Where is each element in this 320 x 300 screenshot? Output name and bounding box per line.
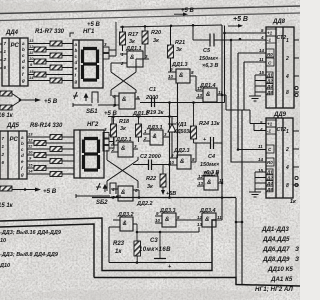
svg-text:R18: R18 — [119, 119, 130, 125]
svg-text:ДД6,ДД7: ДД6,ДД7 — [262, 246, 290, 253]
gate DD2.2 — [118, 186, 133, 201]
svg-text:b: b — [21, 141, 24, 146]
svg-text:SБ2: SБ2 — [96, 200, 108, 206]
wire C5 row to DD8 pin4 — [193, 39, 266, 41]
resistor R11 — [34, 153, 46, 158]
svg-text:Д1: Д1 — [266, 170, 273, 175]
resistor R10 — [50, 147, 62, 152]
svg-text:g: g — [20, 172, 24, 177]
svg-text:ДД1.3: ДД1.3 — [171, 62, 188, 68]
svg-text:10мк×16В: 10мк×16В — [139, 247, 171, 253]
svg-text:&: & — [165, 217, 169, 223]
display HG1 box — [73, 40, 103, 88]
resistor R14 — [50, 172, 62, 177]
pin boxes DD9 left — [266, 120, 276, 192]
svg-text:15: 15 — [259, 70, 265, 75]
pin numbers DD9 right — [285, 129, 289, 189]
display HG1 digit 8 — [83, 49, 98, 81]
resistor R6 — [34, 72, 46, 77]
svg-text:d: d — [21, 153, 24, 158]
resistor R5 — [50, 65, 62, 70]
pin numbers DD8 right — [285, 38, 289, 96]
wire top bus line 2 — [0, 13, 300, 21]
resistor R16 — [0, 91, 12, 96]
pins DD2.2 — [111, 187, 138, 200]
wire frame loop outer — [0, 218, 216, 271]
resistor R8 — [50, 135, 62, 140]
wires DD5 to R to HG2 — [27, 137, 74, 174]
pins DD2.1 — [111, 145, 138, 152]
svg-text:&: & — [179, 73, 183, 79]
capacitor C1 — [152, 98, 155, 108]
gate DD1.3 — [176, 69, 190, 83]
gate DD3.1 — [150, 130, 163, 145]
resistor R17 — [120, 32, 126, 45]
pins DD3.3 — [155, 216, 202, 223]
gate DD2.3 — [177, 155, 191, 169]
svg-text:b: b — [22, 47, 25, 52]
gate DD3.4 — [202, 213, 216, 227]
wire +5V rail — [120, 25, 222, 27]
resistor R15 — [0, 105, 12, 110]
svg-text:С2 2000: С2 2000 — [140, 154, 161, 160]
svg-text:15: 15 — [28, 163, 33, 168]
svg-text:ДД1-ДД3: ДД1-ДД3 — [261, 226, 289, 233]
ground DD8 — [249, 96, 261, 101]
svg-text:10: 10 — [168, 74, 174, 79]
wire R24 leads — [193, 102, 195, 143]
svg-text:2: 2 — [1, 152, 5, 157]
pins DD1.2 — [112, 94, 140, 108]
svg-text:Д8: Д8 — [266, 90, 273, 95]
wire v x224 to h1 — [224, 33, 226, 85]
wire DD3.2 input to bottom rail — [109, 227, 212, 263]
svg-text:ДД3.2: ДД3.2 — [117, 212, 134, 218]
node +5V arrow mid-left — [20, 99, 38, 101]
svg-text:-1: -1 — [267, 129, 271, 134]
wire DD8 R0 C from channel — [238, 53, 266, 62]
pins DD1.3 — [168, 72, 196, 79]
resistor R1 — [50, 41, 62, 46]
wire latch cross SB2 — [107, 150, 138, 191]
wire v x238 to DD9 C — [238, 53, 266, 150]
svg-text:R0: R0 — [267, 52, 273, 57]
resistor R22 — [160, 174, 166, 187]
svg-text:14: 14 — [259, 48, 265, 53]
svg-text:12: 12 — [29, 44, 34, 49]
wire top bus line 1 — [0, 6, 300, 14]
svg-text:12: 12 — [197, 86, 203, 91]
pin boxes HG1 right — [103, 22, 116, 59]
wire R22 arrow +5V — [162, 165, 164, 193]
svg-text:d: d — [75, 60, 78, 65]
wire DD1.4 to DD9 inputs — [222, 95, 266, 124]
svg-text:ДД5: ДД5 — [6, 123, 20, 129]
IC DD9 counter — [266, 118, 293, 198]
svg-text:РС: РС — [10, 137, 19, 143]
svg-text:ДД8,ДД9: ДД8,ДД9 — [262, 256, 290, 263]
svg-text:11: 11 — [258, 144, 263, 149]
svg-text:2: 2 — [120, 61, 124, 66]
pins DD1.1 — [120, 52, 148, 66]
resistor R20 — [142, 31, 148, 44]
svg-text:15: 15 — [29, 69, 34, 74]
svg-text:×6,3 В: ×6,3 В — [202, 63, 218, 69]
svg-text:+5 В: +5 В — [233, 16, 248, 23]
diode VD1 — [168, 117, 177, 159]
ground DD9 — [249, 192, 261, 197]
svg-text:Д2: Д2 — [266, 78, 273, 83]
gate DD2.4 — [204, 176, 218, 190]
wire R18 leads — [113, 116, 115, 145]
wire frame loop inner — [0, 224, 94, 278]
svg-text:150мк×: 150мк× — [199, 56, 219, 62]
wire DD8 outputs — [294, 40, 299, 92]
svg-text:14: 14 — [29, 75, 34, 80]
svg-text:4: 4 — [285, 165, 289, 171]
svg-text:R20: R20 — [151, 30, 161, 36]
svg-text:2: 2 — [285, 56, 289, 62]
resistor R12 — [50, 159, 62, 164]
svg-text:g: g — [21, 78, 25, 83]
svg-text:R1-R7 330: R1-R7 330 — [35, 29, 65, 35]
svg-text:4: 4 — [260, 35, 264, 40]
pins DD3.4 — [216, 219, 222, 221]
capacitor C4 — [211, 137, 214, 149]
svg-text:ДД2.2: ДД2.2 — [136, 201, 153, 207]
resistor R9 — [34, 141, 46, 146]
wire v x244 — [243, 62, 245, 110]
svg-text:R23: R23 — [113, 241, 125, 247]
svg-text:1к: 1к — [115, 249, 122, 255]
wire long bottom line — [94, 278, 300, 287]
wire verticals mid channel — [170, 25, 267, 220]
svg-text:SБ1: SБ1 — [86, 109, 98, 115]
svg-text:НГ1: НГ1 — [83, 29, 95, 35]
wire v x236 lower — [235, 198, 237, 277]
svg-text:12: 12 — [197, 215, 203, 220]
svg-text:Д4: Д4 — [266, 84, 273, 89]
svg-text:&: & — [205, 217, 209, 223]
svg-text:&: & — [121, 190, 125, 196]
node DD8 output connectors — [295, 86, 298, 96]
svg-text:2: 2 — [3, 57, 7, 62]
svg-text:4: 4 — [111, 187, 115, 192]
pin letters DD4 right — [21, 41, 25, 83]
svg-text:8: 8 — [286, 183, 289, 189]
pin numbers DD9 — [258, 120, 264, 173]
scan grain (under ink) — [0, 0, 1, 1]
resistor R18 — [111, 124, 117, 137]
svg-text:ДД3.3: ДД3.3 — [159, 208, 176, 214]
display HG2 box — [74, 130, 104, 178]
svg-text:СТ2: СТ2 — [277, 127, 287, 133]
svg-text:-1: -1 — [267, 38, 271, 43]
svg-text:10: 10 — [29, 56, 34, 61]
svg-text:R21: R21 — [175, 40, 185, 46]
svg-text:13: 13 — [28, 132, 33, 137]
display HG2 digit 8 — [84, 139, 99, 171]
svg-text:РС: РС — [11, 43, 20, 49]
wire DD1.3 out vertical — [195, 76, 197, 91]
svg-text:150мк×: 150мк× — [200, 162, 220, 168]
wire latch cross SB1 — [111, 59, 149, 96]
svg-text:+1: +1 — [267, 122, 273, 127]
svg-text:4: 4 — [112, 94, 116, 99]
svg-text:СТ2: СТ2 — [277, 35, 287, 41]
capacitor C2 — [149, 160, 152, 171]
pin numbers DD5 left — [1, 136, 5, 165]
svg-text:-ДД3; Вы8.8 ДД4-ДД9: -ДД3; Вы8.8 ДД4-ДД9 — [0, 252, 59, 258]
svg-text:R0: R0 — [267, 160, 273, 165]
capacitor C5 — [210, 34, 214, 47]
svg-text:&: & — [130, 55, 134, 61]
svg-text:Д4: Д4 — [266, 181, 273, 186]
wire DD4 input stubs — [0, 44, 2, 68]
svg-text:З: З — [295, 246, 299, 253]
wire R23 C3 top rail — [137, 227, 199, 232]
svg-text:Д2: Д2 — [266, 175, 273, 180]
svg-text:+5 В: +5 В — [87, 22, 101, 28]
node F mark near HG1 — [70, 33, 74, 37]
svg-text:12: 12 — [28, 138, 33, 143]
wire R23 leads — [136, 256, 138, 263]
wire v x177.5 — [177, 83, 179, 158]
pins DD2.4 — [197, 179, 222, 186]
resistor R2 — [34, 47, 46, 52]
svg-text:2: 2 — [111, 147, 115, 152]
svg-text:14: 14 — [28, 169, 33, 174]
pin boxes HG2 right — [103, 133, 114, 152]
svg-text:Д10: Д10 — [0, 263, 10, 269]
svg-text:&: & — [123, 221, 127, 227]
svg-text:&: & — [180, 159, 184, 165]
capacitor C3 — [154, 259, 166, 263]
svg-text:12: 12 — [198, 174, 204, 179]
gate DD1.4 — [203, 88, 217, 102]
pin numbers DD4 left — [3, 41, 7, 70]
gate DD3.3 — [162, 213, 176, 227]
wire v x222 — [221, 25, 223, 220]
wire DD9 outputs — [293, 131, 299, 185]
svg-text:З: З — [295, 256, 299, 263]
wire C2 row — [133, 164, 170, 166]
svg-text:+5В: +5В — [166, 191, 176, 197]
svg-text:С5: С5 — [203, 48, 211, 54]
pins DD3.1 — [143, 134, 170, 141]
svg-text:2: 2 — [285, 147, 289, 153]
gate DD1.1 — [127, 51, 143, 67]
wire R17 top — [122, 27, 124, 51]
wire DD9 preset pins to ground — [255, 172, 266, 192]
wire vertical to SB2 column — [111, 116, 113, 130]
resistor R3 — [50, 53, 62, 58]
IC DD4 decoder box — [2, 38, 28, 86]
svg-text:ДД2.3: ДД2.3 — [173, 148, 190, 154]
svg-text:С4: С4 — [208, 154, 215, 160]
svg-text:R17: R17 — [128, 32, 139, 38]
svg-text:&: & — [207, 180, 211, 186]
svg-text:ДД8: ДД8 — [272, 19, 286, 25]
svg-text:VД1: VД1 — [176, 122, 187, 128]
node junction dots on rail — [121, 24, 194, 28]
svg-text:11: 11 — [217, 215, 222, 220]
svg-text:+1: +1 — [267, 31, 273, 36]
pins DD1.4 — [196, 91, 222, 98]
pins DD2.3 — [170, 143, 196, 165]
switch SB2 — [76, 183, 121, 198]
svg-text:ДД4: ДД4 — [5, 30, 19, 36]
gate DD3.2 — [120, 217, 133, 231]
svg-text:С3: С3 — [150, 238, 158, 244]
svg-text:10: 10 — [28, 150, 33, 155]
wire R16 to +5V — [10, 94, 20, 108]
svg-text:14: 14 — [258, 157, 264, 162]
resistor R19 — [136, 124, 142, 137]
svg-text:НГ2: НГ2 — [87, 122, 99, 128]
wire v x242 — [236, 110, 242, 284]
resistor R23 — [134, 241, 141, 256]
resistor R21 — [168, 45, 174, 58]
svg-text:1: 1 — [286, 129, 289, 135]
svg-text:R19 3к: R19 3к — [146, 110, 165, 116]
svg-text:13: 13 — [198, 181, 204, 186]
node DD9 output connectors — [295, 176, 298, 186]
resistor R15b lower — [0, 186, 12, 191]
svg-text:4: 4 — [259, 127, 263, 132]
svg-text:ДА1 К5: ДА1 К5 — [270, 276, 293, 283]
wire to +5V arrow lower-left — [12, 189, 24, 191]
svg-text:С1: С1 — [149, 87, 156, 93]
wire SB1 to latch — [103, 96, 115, 105]
svg-text:ДД4,ДД5: ДД4,ДД5 — [262, 236, 290, 243]
resistor R24 — [191, 126, 197, 139]
svg-text:15 1к: 15 1к — [0, 203, 14, 209]
svg-text:b: b — [75, 48, 78, 53]
svg-text:ДД3.4: ДД3.4 — [199, 208, 216, 214]
svg-text:R24 13к: R24 13к — [199, 121, 221, 127]
wire v x169 — [169, 103, 171, 198]
wire C3 leads — [159, 232, 161, 259]
wires DD4 to R to HG1 row a — [28, 44, 73, 81]
svg-text:ДД1.1: ДД1.1 — [125, 46, 142, 52]
svg-text:10: 10 — [0, 238, 6, 244]
svg-text:Д1: Д1 — [266, 73, 273, 78]
node junctions channel — [223, 32, 239, 151]
svg-text:16 1к: 16 1к — [0, 113, 14, 119]
svg-text:R22: R22 — [146, 176, 156, 182]
svg-text:НГ1; НГ2 АЛ: НГ1; НГ2 АЛ — [255, 286, 293, 293]
wire v x231 to DD9 R0 — [231, 40, 266, 162]
wire DD8 pin5 row — [225, 26, 267, 34]
svg-text:4: 4 — [285, 74, 289, 80]
wire h2 row — [108, 116, 178, 118]
pin letters DD5 right — [20, 135, 24, 177]
wire R19 leads — [138, 116, 140, 142]
svg-text:2: 2 — [143, 136, 147, 141]
svg-text:13: 13 — [197, 93, 203, 98]
svg-text:&: & — [153, 134, 157, 140]
svg-text:d: d — [22, 59, 25, 64]
gate DD1.2 — [119, 93, 135, 109]
pin numbers DD8 — [259, 28, 265, 75]
svg-text:ДД2.4: ДД2.4 — [202, 172, 219, 178]
svg-text:8: 8 — [286, 90, 289, 96]
svg-text:+5 В: +5 В — [44, 98, 58, 105]
svg-text:ДД10 К5: ДД10 К5 — [267, 266, 293, 273]
svg-text:1: 1 — [286, 38, 289, 44]
svg-text:g: g — [74, 79, 78, 84]
svg-text:ДД9: ДД9 — [273, 112, 287, 118]
wire h1 row — [140, 85, 225, 103]
wire DD8 preset pins to ground — [255, 75, 266, 96]
wire R21 leads — [170, 26, 172, 72]
svg-text:11: 11 — [259, 57, 264, 62]
wire h3 bottom rail — [92, 197, 236, 199]
wire R20 leads — [144, 27, 146, 60]
svg-text:10: 10 — [155, 218, 161, 223]
svg-text:+5 В: +5 В — [43, 188, 57, 195]
svg-text:ДД3.1: ДД3.1 — [146, 125, 163, 131]
wire C4 row — [194, 142, 223, 144]
IC DD8 counter — [266, 27, 294, 108]
resistor R13 — [34, 166, 46, 171]
svg-text:-ДД3; Вы8.16 ДД4-ДД9: -ДД3; Вы8.16 ДД4-ДД9 — [0, 230, 62, 236]
switch SB1 — [73, 92, 103, 107]
resistor R4 — [34, 59, 46, 64]
svg-text:&: & — [206, 92, 210, 98]
pin letters HG1 — [74, 42, 78, 84]
IC DD5 decoder box — [0, 131, 27, 179]
svg-text:&: & — [121, 146, 125, 152]
svg-text:ДД2.1: ДД2.1 — [115, 137, 132, 143]
svg-text:2000: 2000 — [145, 95, 158, 101]
resistor R7 — [50, 78, 62, 83]
svg-text:&: & — [122, 97, 126, 103]
gate DD2.1 — [118, 142, 133, 157]
svg-text:Д8: Д8 — [266, 187, 273, 192]
svg-text:13: 13 — [29, 38, 34, 43]
pin boxes DD8 left — [266, 29, 276, 95]
svg-text:R8-R14 330: R8-R14 330 — [30, 123, 63, 129]
svg-text:13: 13 — [197, 222, 203, 227]
pins DD3.2 — [113, 220, 137, 241]
